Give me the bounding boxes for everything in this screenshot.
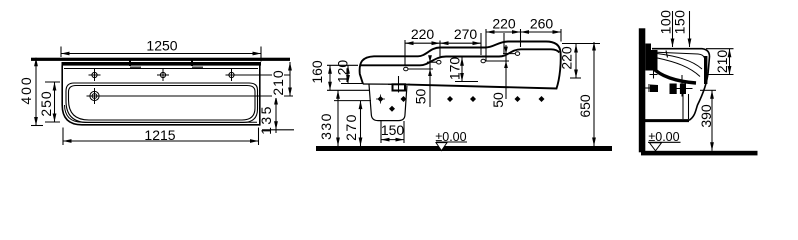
svg-text:220: 220 (559, 46, 575, 70)
svg-text:150: 150 (672, 10, 688, 35)
svg-text:50: 50 (413, 89, 429, 105)
svg-text:1215: 1215 (144, 127, 175, 143)
svg-text:390: 390 (698, 104, 714, 128)
svg-text:160: 160 (309, 60, 325, 84)
svg-text:50: 50 (490, 92, 506, 108)
svg-text:150: 150 (381, 122, 405, 138)
svg-text:1250: 1250 (146, 38, 177, 54)
svg-text:210: 210 (714, 50, 730, 74)
svg-text:650: 650 (577, 94, 593, 118)
svg-text:210: 210 (270, 69, 286, 95)
svg-text:330: 330 (318, 112, 334, 140)
svg-text:260: 260 (530, 16, 554, 32)
svg-text:250: 250 (38, 90, 54, 116)
svg-text:270: 270 (454, 26, 478, 42)
svg-text:120: 120 (335, 60, 351, 84)
svg-text:220: 220 (492, 16, 516, 32)
svg-text:±0.00: ±0.00 (648, 130, 679, 144)
svg-text:170: 170 (447, 57, 463, 81)
svg-text:270: 270 (343, 113, 359, 141)
svg-text:220: 220 (411, 26, 435, 42)
svg-text:±0.00: ±0.00 (435, 130, 466, 144)
svg-text:400: 400 (18, 75, 34, 104)
svg-text:135: 135 (258, 104, 274, 135)
